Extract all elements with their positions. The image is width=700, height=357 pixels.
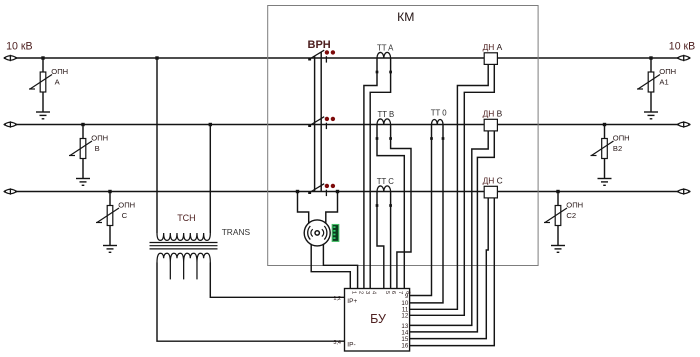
svg-text:ДН C: ДН C [483,176,503,186]
voltage divider DN B [484,119,497,131]
svg-text:TT B: TT B [378,110,395,119]
varistor OPN C [96,206,119,226]
wire TT B s1 to BU pin8 [377,125,404,289]
svg-text:B2: B2 [613,144,622,153]
current transformer TT C polarity marks [376,204,392,207]
node on busbar OPN B2 [603,123,606,126]
svg-text:ОПН: ОПН [659,67,676,76]
pin numbers 1-8 (BU top) [350,291,410,294]
svg-text:ДН A: ДН A [483,42,503,52]
ground OPN C [103,246,117,253]
connector J1 (motor terminal block) [332,225,339,242]
svg-text:TCH: TCH [177,213,196,223]
current transformer TT 0 winding [432,120,444,125]
svg-text:6: 6 [390,291,396,294]
enclosure KM box [268,6,538,266]
wire to ground OPN A1 [650,92,652,112]
wire TT B s2 to BU pin7 [391,125,411,289]
wire to ground OPN C2 [557,226,559,246]
wire busbar phase A (10 kV) [17,57,680,59]
motor drive M (VRN actuator) [304,220,330,246]
terminal left phase C [4,188,17,194]
wire motor to BU pin1 [311,244,350,288]
svg-text:5: 5 [384,291,390,294]
svg-text:TT 0: TT 0 [431,109,448,118]
ground OPN A [36,112,50,119]
varistor OPN A [29,72,52,92]
transformer TCH secondary winding [157,253,210,262]
switch VRN pole phase A [308,50,326,62]
control unit BU box [345,289,410,352]
svg-text:3,4: 3,4 [333,340,341,346]
varistor OPN A1 [637,72,660,92]
svg-text:A1: A1 [659,77,668,86]
ground OPN B2 [598,179,612,186]
label 10 kV left [6,40,32,52]
svg-text:B: B [95,144,100,153]
svg-text:TT A: TT A [377,44,394,53]
label KM [397,10,414,24]
switch VRN pole phase C [308,184,326,196]
wire TT 0 s2 to BU pin10 [410,125,443,303]
node phase B to TCH primary [209,123,212,126]
wire motor feed left [298,192,309,225]
wire to varistor OPN A [42,58,44,72]
ground OPN C2 [551,246,565,253]
wire DN C out2 to BU pin16 [410,198,495,346]
svg-text:ОПН: ОПН [51,67,68,76]
label DN B [483,109,503,119]
svg-text:КМ: КМ [397,10,414,24]
svg-text:3: 3 [364,291,370,294]
switch VRN linkage bars [315,52,322,191]
current transformer TT B polarity marks [376,137,392,140]
svg-text:ОПН: ОПН [566,200,583,209]
wire to varistor OPN C2 [557,192,559,206]
svg-text:7: 7 [397,291,403,294]
svg-text:БУ: БУ [370,312,386,326]
label OPN A [51,67,68,87]
wire busbar phase C (10 kV) [17,191,680,193]
label TT C [377,177,395,186]
wire label 3,4 [333,340,341,346]
varistor OPN B2 [591,139,614,159]
wire TT C s1 to BU pin5 [377,192,384,289]
wire to varistor OPN B [82,125,84,139]
wire to varistor OPN A1 [650,58,652,72]
label DN C [483,176,503,186]
label OPN A1 [659,67,676,87]
current transformer TT A polarity marks [376,71,392,74]
wire label 1,2 [333,296,341,302]
label OPN C2 [566,200,583,220]
svg-text:10 кВ: 10 кВ [6,40,32,52]
transformer TCH secondary taps [170,263,197,280]
svg-text:ОПН: ОПН [91,133,108,142]
wire DN A out1 to BU pin11 [410,64,489,309]
label VRN [308,39,331,51]
switch VRN contact dots phase A [325,50,335,54]
wire TCH primary right leg [209,125,211,234]
terminal left phase A [4,55,17,61]
svg-text:ОПН: ОПН [118,200,135,209]
wire TCH secondary- to BU pin 3,4 [157,263,345,342]
label BU [370,312,386,326]
switch VRN contact dots phase B [325,117,335,121]
svg-text:ВРН: ВРН [308,39,331,51]
label TT 0 [431,109,448,118]
wire busbar phase B (10 kV) [17,124,680,126]
wire DN B out2 to BU pin14 [410,131,495,332]
svg-text:C2: C2 [566,211,576,220]
varistor OPN C2 [544,206,567,226]
wire TCH secondary+ to BU pin 1,2 [210,263,344,298]
wire motor to BU pin2 [323,244,357,288]
wire to ground OPN A [42,92,44,112]
label 10 kV right [669,41,695,53]
label TT B [378,110,395,119]
svg-text:C: C [122,211,128,220]
label OPN B2 [613,133,630,153]
node on busbar OPN C [108,190,111,193]
svg-text:1,2: 1,2 [333,296,341,302]
svg-text:1: 1 [350,291,356,294]
wire to ground OPN B2 [604,159,606,179]
wire to ground OPN B [82,159,84,179]
wire DN C out1 to BU pin15 [410,198,489,339]
node phase A to TCH primary [155,56,158,59]
terminal right phase B [677,121,690,127]
label TRANS [222,227,251,237]
transformer TCH primary winding [157,233,210,240]
label TT A [377,44,394,53]
svg-text:12: 12 [401,313,408,320]
svg-text:16: 16 [401,343,408,350]
switch VRN pole phase B [308,117,326,129]
current transformer TT C winding [377,186,391,192]
wire to ground OPN C [109,226,111,246]
wire TCH primary left leg [156,58,158,233]
wire motor feed right [326,192,338,225]
svg-text:2: 2 [358,291,364,294]
transformer TCH core [150,243,218,249]
svg-text:IP-: IP- [347,342,355,349]
label TCH [177,213,196,223]
node phase C motor tap right [336,190,339,193]
wire to varistor OPN C [109,192,111,206]
terminal right phase A [677,55,690,61]
varistor OPN B [69,139,92,159]
wire to varistor OPN B2 [604,125,606,139]
current transformer TT A winding [377,52,391,58]
svg-text:10 кВ: 10 кВ [669,41,695,53]
svg-text:IP+: IP+ [347,298,357,305]
svg-text:4: 4 [370,291,376,294]
terminal right phase C [677,188,690,194]
label OPN B [91,133,108,153]
pin label IP+ [347,298,357,305]
wire DN B out1 to BU pin13 [410,131,489,326]
current transformer TT B winding [377,119,391,125]
ground OPN B [76,179,90,186]
svg-text:TRANS: TRANS [222,227,251,237]
wire TT A s2 to BU pin4 [370,58,390,289]
wire DN A out2 to BU pin12 [410,64,495,315]
node phase C motor tap left [296,190,299,193]
voltage divider DN C [484,186,497,198]
ground OPN A1 [644,112,658,119]
wire TT C s2 to BU pin6 [390,192,392,289]
wire TT 0 s1 to BU pin9 [410,125,432,296]
switch VRN contact dots phase C [325,184,335,188]
node on busbar OPN A1 [649,56,652,59]
terminal left phase B [4,121,17,127]
svg-text:ОПН: ОПН [613,133,630,142]
current transformer TT 0 polarity marks [430,137,444,140]
pin label IP- [347,342,355,349]
label DN A [483,42,503,52]
node on busbar OPN B [81,123,84,126]
svg-text:9: 9 [405,293,409,300]
wire TT A s1 to BU pin3 [364,58,377,289]
svg-text:TT C: TT C [377,177,395,186]
label OPN C [118,200,135,220]
pin numbers 9-16 (BU right) [401,293,408,350]
svg-text:ДН B: ДН B [483,109,503,119]
node on busbar OPN C2 [556,190,559,193]
node on busbar OPN A [41,56,44,59]
voltage divider DN A [484,53,497,65]
